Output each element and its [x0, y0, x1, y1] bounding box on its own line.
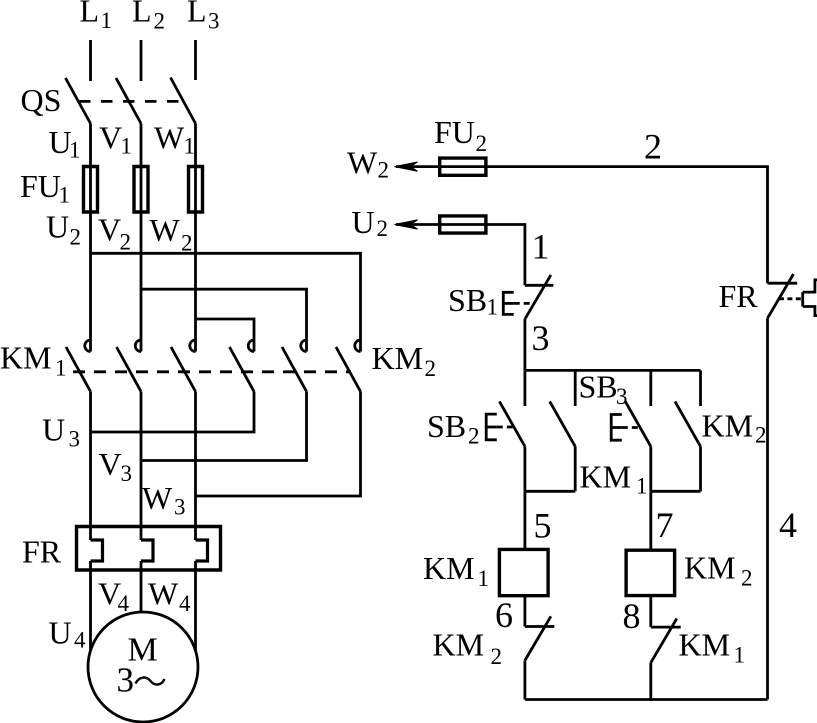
svg-text:5: 5	[534, 506, 552, 546]
svg-text:L: L	[187, 0, 207, 29]
svg-text:2: 2	[491, 644, 503, 669]
svg-text:W: W	[148, 576, 179, 612]
svg-text:2: 2	[644, 127, 662, 167]
svg-text:3: 3	[121, 461, 133, 486]
svg-text:2: 2	[755, 423, 767, 448]
svg-text:2: 2	[70, 225, 82, 250]
svg-text:U: U	[49, 615, 72, 651]
svg-text:SB: SB	[427, 408, 466, 444]
svg-text:4: 4	[74, 628, 86, 653]
svg-text:FU: FU	[434, 114, 475, 150]
svg-text:8: 8	[623, 596, 641, 636]
svg-text:U: U	[42, 412, 65, 448]
svg-text:4: 4	[179, 591, 191, 616]
svg-text:2: 2	[425, 356, 437, 381]
svg-text:2: 2	[120, 230, 132, 255]
svg-text:KM: KM	[0, 340, 52, 376]
svg-text:1: 1	[59, 183, 71, 208]
svg-text:3: 3	[208, 9, 220, 34]
svg-text:SB: SB	[448, 282, 487, 318]
svg-text:7: 7	[656, 505, 674, 545]
svg-text:1: 1	[734, 643, 746, 668]
svg-text:1: 1	[121, 134, 133, 159]
svg-text:KM: KM	[433, 627, 485, 663]
svg-text:QS: QS	[21, 82, 62, 118]
svg-text:V: V	[99, 120, 122, 156]
svg-text:KM: KM	[702, 408, 754, 444]
svg-text:1: 1	[69, 138, 81, 163]
svg-text:L: L	[132, 0, 152, 29]
svg-text:1: 1	[487, 295, 499, 320]
svg-text:6: 6	[495, 595, 513, 635]
svg-text:FR: FR	[719, 278, 759, 314]
svg-text:4: 4	[118, 591, 130, 616]
svg-text:FR: FR	[22, 534, 62, 570]
svg-text:1: 1	[532, 227, 550, 267]
svg-text:W: W	[347, 145, 378, 181]
svg-text:2: 2	[468, 424, 480, 449]
svg-text:3: 3	[117, 661, 135, 700]
svg-text:2: 2	[476, 131, 488, 156]
svg-text:KM: KM	[679, 627, 731, 663]
svg-text:2: 2	[377, 216, 389, 241]
svg-text:L: L	[80, 0, 100, 29]
svg-text:3: 3	[532, 318, 550, 358]
svg-text:KM: KM	[372, 340, 424, 376]
svg-text:SB: SB	[579, 369, 618, 405]
svg-text:W: W	[142, 480, 173, 516]
svg-text:3: 3	[69, 427, 81, 452]
svg-text:KM: KM	[684, 550, 736, 586]
svg-text:2: 2	[181, 231, 193, 256]
svg-text:2: 2	[154, 9, 166, 34]
svg-text:2: 2	[741, 566, 753, 591]
svg-text:2: 2	[378, 158, 390, 183]
svg-text:3: 3	[616, 384, 628, 409]
svg-text:U: U	[46, 209, 69, 245]
svg-text:1: 1	[636, 474, 648, 499]
svg-text:1: 1	[55, 356, 67, 381]
svg-text:KM: KM	[580, 459, 632, 495]
svg-text:U: U	[352, 204, 375, 240]
svg-text:1: 1	[184, 134, 196, 159]
svg-text:V: V	[98, 212, 121, 248]
svg-text:W: W	[150, 212, 181, 248]
svg-text:1: 1	[478, 566, 490, 591]
svg-text:V: V	[99, 446, 122, 482]
svg-text:W: W	[154, 120, 185, 156]
svg-text:1: 1	[101, 8, 113, 33]
svg-text:KM: KM	[423, 550, 475, 586]
svg-text:4: 4	[779, 505, 797, 545]
svg-text:3: 3	[174, 495, 186, 520]
svg-text:FU: FU	[20, 168, 61, 204]
